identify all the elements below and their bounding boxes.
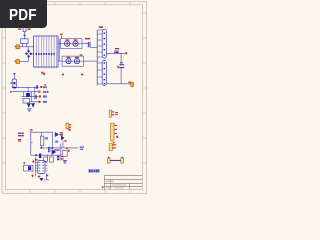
label midtext bbox=[54, 149, 57, 151]
diode D5 bbox=[39, 154, 41, 159]
label W4 bbox=[38, 101, 47, 103]
diode bar D2 bbox=[27, 103, 31, 105]
wire q3 bbox=[62, 140, 64, 148]
power flag VCC2 bbox=[80, 54, 83, 56]
optocoupler U2 bbox=[26, 93, 30, 97]
fuse F1 bbox=[18, 27, 30, 38]
junction j1 bbox=[41, 147, 42, 148]
capacitor C13 bbox=[35, 95, 36, 99]
wire ic out bbox=[44, 173, 49, 180]
wire vout drop bbox=[120, 53, 122, 64]
connector J5 bbox=[66, 123, 71, 131]
snubber row A bbox=[61, 39, 82, 49]
label Y1 bbox=[18, 139, 21, 142]
polarity mark A bbox=[62, 73, 64, 75]
capacitor C9 bbox=[48, 147, 50, 152]
sheet border frame bbox=[2, 2, 147, 194]
capacitor C7 (polarized) bbox=[117, 62, 124, 84]
power flag P2 bbox=[43, 73, 46, 76]
wire primary bottom bbox=[84, 60, 98, 62]
connector J1 pin N bbox=[15, 60, 20, 64]
label C15 bbox=[38, 175, 41, 178]
ground GND1 bbox=[27, 109, 32, 112]
line filter FL1 bbox=[34, 36, 58, 68]
wire N bbox=[19, 58, 28, 62]
wire L bbox=[20, 46, 34, 48]
note mark bbox=[102, 186, 104, 188]
wire bus right of filter bbox=[58, 39, 62, 61]
wire ic up bbox=[46, 155, 48, 161]
wire drop d4 bbox=[34, 87, 36, 95]
diode D2 bbox=[27, 104, 31, 108]
net label faint bbox=[80, 146, 84, 150]
label Q2b bbox=[55, 141, 58, 143]
resistor R6 bbox=[40, 136, 44, 146]
varistor RV1 bbox=[21, 39, 28, 47]
wire rail bbox=[31, 131, 53, 133]
wire primary top bbox=[90, 46, 97, 48]
label T1 bbox=[99, 26, 103, 28]
resistor R9 bbox=[50, 157, 54, 162]
power flag VCC1 bbox=[60, 34, 63, 39]
connector J3 bbox=[111, 123, 119, 141]
label W2 bbox=[38, 91, 48, 93]
jumper W2 bbox=[107, 157, 123, 163]
transistor Q2 bbox=[52, 149, 60, 155]
capacitor C3 bbox=[82, 38, 90, 47]
wire VOUT bbox=[106, 52, 127, 54]
resistor R10 bbox=[62, 151, 67, 157]
label U5 plus bbox=[23, 162, 25, 164]
transistor Q3 bbox=[61, 136, 67, 142]
label C14 bbox=[31, 175, 34, 178]
wire drop r3 bbox=[40, 146, 42, 148]
junction marks bbox=[57, 156, 59, 160]
ground arrow bbox=[40, 178, 44, 181]
wire return bbox=[106, 83, 131, 85]
wire drop r1 bbox=[40, 132, 42, 136]
wire vright bbox=[60, 144, 62, 161]
title block bbox=[105, 175, 143, 189]
wire bus left bbox=[31, 130, 33, 155]
capacitor C6 bbox=[114, 48, 119, 53]
wire to bridge bbox=[27, 47, 29, 50]
label W1 bbox=[40, 84, 47, 88]
label D5 bbox=[35, 159, 38, 161]
ground GND3 bbox=[63, 161, 68, 164]
transistor Q1 bbox=[55, 132, 63, 137]
wire W3 bbox=[22, 96, 39, 98]
wire drop d3 bbox=[30, 92, 32, 102]
wire q1-q3 bbox=[59, 135, 63, 136]
label U4 plus bbox=[32, 160, 35, 163]
wire W2 bbox=[10, 91, 38, 93]
polarity mark B bbox=[81, 73, 83, 75]
resistor R8 bbox=[44, 157, 48, 161]
IC U4 bbox=[35, 161, 47, 174]
wire drop d1 bbox=[23, 92, 25, 97]
label GND bbox=[128, 82, 130, 83]
crystal Y1 bbox=[18, 133, 24, 137]
caption text bbox=[89, 169, 100, 172]
wire low bbox=[31, 154, 61, 156]
wire drop d2 bbox=[27, 87, 29, 93]
snubber row B bbox=[62, 56, 84, 66]
fuse F2 (vertical) bbox=[10, 73, 16, 88]
connector J2 bbox=[109, 110, 118, 117]
wire ic vert bbox=[34, 157, 36, 176]
optocoupler U5 bbox=[24, 165, 33, 171]
port P1 (orange) bbox=[131, 82, 134, 87]
connector J4 bbox=[109, 142, 116, 150]
PDF badge bbox=[0, 0, 47, 28]
power flag +12V bbox=[30, 129, 33, 130]
connector J1 pin L bbox=[15, 45, 20, 49]
wire W1 bbox=[12, 87, 39, 89]
regulator U3 bbox=[23, 99, 30, 104]
bridge rectifier D1 bbox=[25, 50, 34, 58]
diode D3 bbox=[31, 104, 34, 108]
capacitor C12 bbox=[36, 85, 37, 89]
wire mid bbox=[40, 147, 78, 149]
label R6 bbox=[45, 137, 48, 139]
wire drop q bbox=[52, 132, 54, 149]
label D4 bbox=[66, 147, 69, 152]
wire W4 bbox=[30, 101, 38, 103]
label R9 bbox=[61, 156, 65, 162]
label W3 bbox=[39, 95, 47, 97]
transformer T1 bbox=[97, 29, 106, 85]
label FL1 bbox=[41, 72, 43, 74]
diode bar D3 bbox=[31, 103, 35, 105]
label out plus bbox=[46, 174, 48, 176]
